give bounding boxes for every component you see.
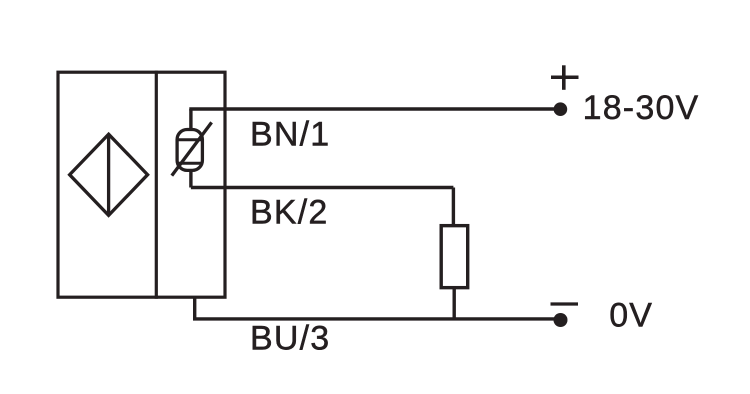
svg-text:0V: 0V xyxy=(609,296,653,334)
svg-text:BK/2: BK/2 xyxy=(250,193,329,231)
svg-text:BU/3: BU/3 xyxy=(250,319,330,357)
svg-text:18-30V: 18-30V xyxy=(583,89,700,127)
svg-text:BN/1: BN/1 xyxy=(250,116,330,154)
